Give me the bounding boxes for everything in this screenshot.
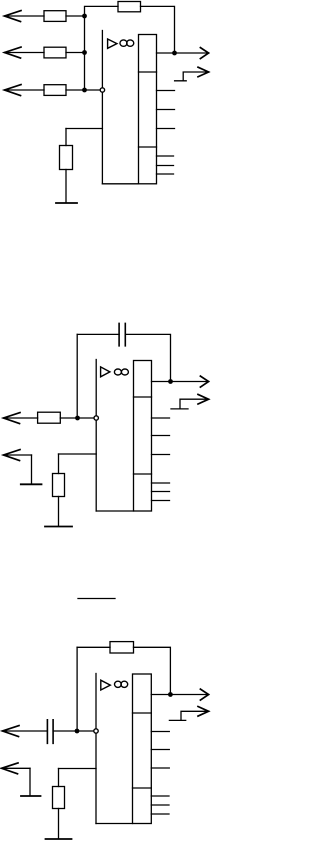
- wire R5 to ground: [65, 170, 67, 203]
- wire R2 to bus: [66, 52, 85, 54]
- pin U3 right 6: [151, 813, 169, 815]
- wire output pin U2: [152, 381, 209, 383]
- wire feedback top left: [77, 333, 119, 335]
- op-amp U1 infinity symbol: [120, 40, 127, 46]
- junction node G: [75, 729, 80, 734]
- wire grounded input vertical stage3: [29, 768, 31, 795]
- pin U2 right 3: [152, 454, 170, 456]
- wire inverting input line upper stage3: [95, 674, 97, 729]
- junction node C: [82, 88, 87, 93]
- wire input2 shaft: [5, 52, 45, 54]
- wire input3 shaft: [5, 89, 45, 91]
- wire R3 to inverting input: [66, 89, 100, 91]
- output arrow 2: [200, 376, 208, 387]
- U2 divider upper: [134, 396, 152, 398]
- output arrow 3: [200, 689, 208, 700]
- wire output pin U3: [151, 694, 208, 696]
- resistor R8 (feedback): [110, 642, 134, 653]
- wire R9 top: [58, 769, 60, 787]
- pulse arrow stage 2: [198, 394, 209, 404]
- U1 divider upper: [139, 71, 157, 73]
- input arrow 1 (off-page, left): [5, 11, 22, 22]
- U1 divider lower: [139, 146, 157, 148]
- U2 divider lower: [134, 473, 152, 475]
- resistor R3: [44, 85, 66, 96]
- stray fraction bar: [78, 598, 115, 600]
- pin U1 right 6: [157, 173, 174, 175]
- pin U3 right 1: [151, 731, 169, 733]
- wire inverting input line upper: [101, 31, 103, 88]
- inverting input terminal circle U1: [100, 88, 104, 92]
- pin U2 right 2: [152, 435, 170, 437]
- wire input1 shaft: [5, 15, 45, 17]
- input arrow stage2: [4, 413, 21, 424]
- pulse arrow stage 1: [198, 67, 209, 77]
- op-amp U1 triangle symbol: [108, 39, 117, 48]
- input arrow 2 stage2: [4, 450, 21, 461]
- pulse reference symbol stage 3: [169, 711, 208, 720]
- input arrow 2 stage3: [2, 763, 19, 774]
- inverting input terminal circle U3: [94, 729, 98, 733]
- pin U1 right 2: [157, 109, 175, 111]
- op-amp U2 body: [134, 361, 152, 512]
- pin U2 right 1: [152, 417, 170, 419]
- wire grounded input shaft stage3: [2, 767, 31, 769]
- output arrow 1: [200, 48, 208, 59]
- inverting input terminal circle U2: [94, 416, 98, 420]
- junction node A: [82, 14, 87, 19]
- wire node H horizontal: [59, 768, 97, 770]
- wire feedback left vertical: [76, 334, 78, 418]
- wire R1 to node A: [66, 15, 85, 17]
- U3 divider upper: [133, 712, 152, 714]
- wire C2 to node G: [53, 730, 93, 732]
- pin U3 right 2: [151, 749, 169, 751]
- wire output pin U1: [157, 52, 209, 54]
- wire R6 to node E: [60, 417, 93, 419]
- pin U2 right 4: [152, 482, 170, 484]
- junction output node: [172, 51, 177, 56]
- pulse reference symbol stage 1: [175, 72, 209, 81]
- pin U2 right 6: [152, 500, 170, 502]
- wire R9 to ground: [58, 809, 60, 839]
- wire inverting input line lower stage3: [95, 734, 97, 824]
- op-amp U1 body: [139, 35, 157, 184]
- junction output node stage 2: [168, 379, 173, 384]
- capacitor C1: [119, 323, 125, 345]
- pulse arrow stage 3: [198, 707, 209, 717]
- resistor R4 (feedback): [118, 2, 141, 12]
- resistor R7: [53, 474, 65, 497]
- op-amp U2 infinity symbol: [114, 369, 121, 375]
- capacitor C2: [47, 720, 53, 744]
- input arrow stage3: [3, 726, 20, 737]
- wire R7 top: [58, 454, 60, 474]
- pin U1 right 3: [157, 128, 175, 130]
- ground stage2 input: [21, 483, 42, 485]
- junction node B: [82, 50, 87, 55]
- wire feedback top right: [125, 334, 170, 381]
- ground stage3 input: [21, 795, 41, 797]
- wire feedback riser: [85, 6, 119, 16]
- op-amp U3 infinity symbol: [115, 681, 122, 687]
- pin U2 right 5: [152, 491, 170, 493]
- resistor R2: [44, 47, 66, 58]
- wire input shaft stage2: [4, 417, 38, 419]
- pulse reference symbol stage 2: [171, 399, 209, 409]
- wire R5 top: [65, 129, 67, 146]
- pin U1 right 5: [157, 165, 174, 167]
- wire grounded input shaft stage2: [4, 454, 32, 456]
- junction output node stage 3: [168, 692, 173, 697]
- wire inverting input line lower: [101, 93, 103, 184]
- ground: [56, 202, 77, 204]
- wire summing bus vertical: [84, 16, 86, 90]
- pin U3 right 3: [151, 767, 169, 769]
- wire grounded input vertical stage2: [31, 455, 33, 484]
- pin U3 right 4: [151, 795, 169, 797]
- op-amp U3 body: [133, 674, 152, 824]
- U3 divider lower: [133, 787, 152, 789]
- pin U3 right 5: [151, 804, 169, 806]
- wire input shaft stage3: [3, 730, 48, 732]
- input arrow 2: [5, 47, 22, 58]
- ground stage2 lower: [45, 526, 72, 528]
- wire node D horizontal: [66, 128, 102, 130]
- resistor R5: [60, 146, 73, 170]
- wire to U2 bottom: [96, 510, 133, 512]
- junction node E: [75, 416, 80, 421]
- resistor R1: [44, 11, 66, 22]
- wire R7 to ground: [58, 497, 60, 526]
- pin U1 right 1: [157, 90, 175, 92]
- wire to U1 bottom: [102, 183, 138, 185]
- wire node F horizontal: [59, 453, 97, 455]
- wire inverting input line lower stage2: [95, 421, 97, 511]
- resistor R6: [38, 412, 61, 423]
- wire feedback left vertical stage3: [76, 647, 78, 731]
- resistor R9: [53, 787, 65, 809]
- op-amp U3 triangle symbol: [101, 680, 111, 690]
- pin U1 right 4: [157, 155, 174, 157]
- wire to U3 bottom: [96, 823, 133, 825]
- input arrow 3: [5, 85, 22, 96]
- ground stage3 lower: [46, 838, 72, 840]
- wire inverting input line upper stage2: [95, 360, 97, 416]
- wire feedback top to output: [141, 6, 175, 53]
- wire feedback top left stage3: [77, 646, 110, 648]
- op-amp U2 triangle symbol: [101, 367, 110, 377]
- wire feedback top right stage3: [134, 647, 171, 694]
